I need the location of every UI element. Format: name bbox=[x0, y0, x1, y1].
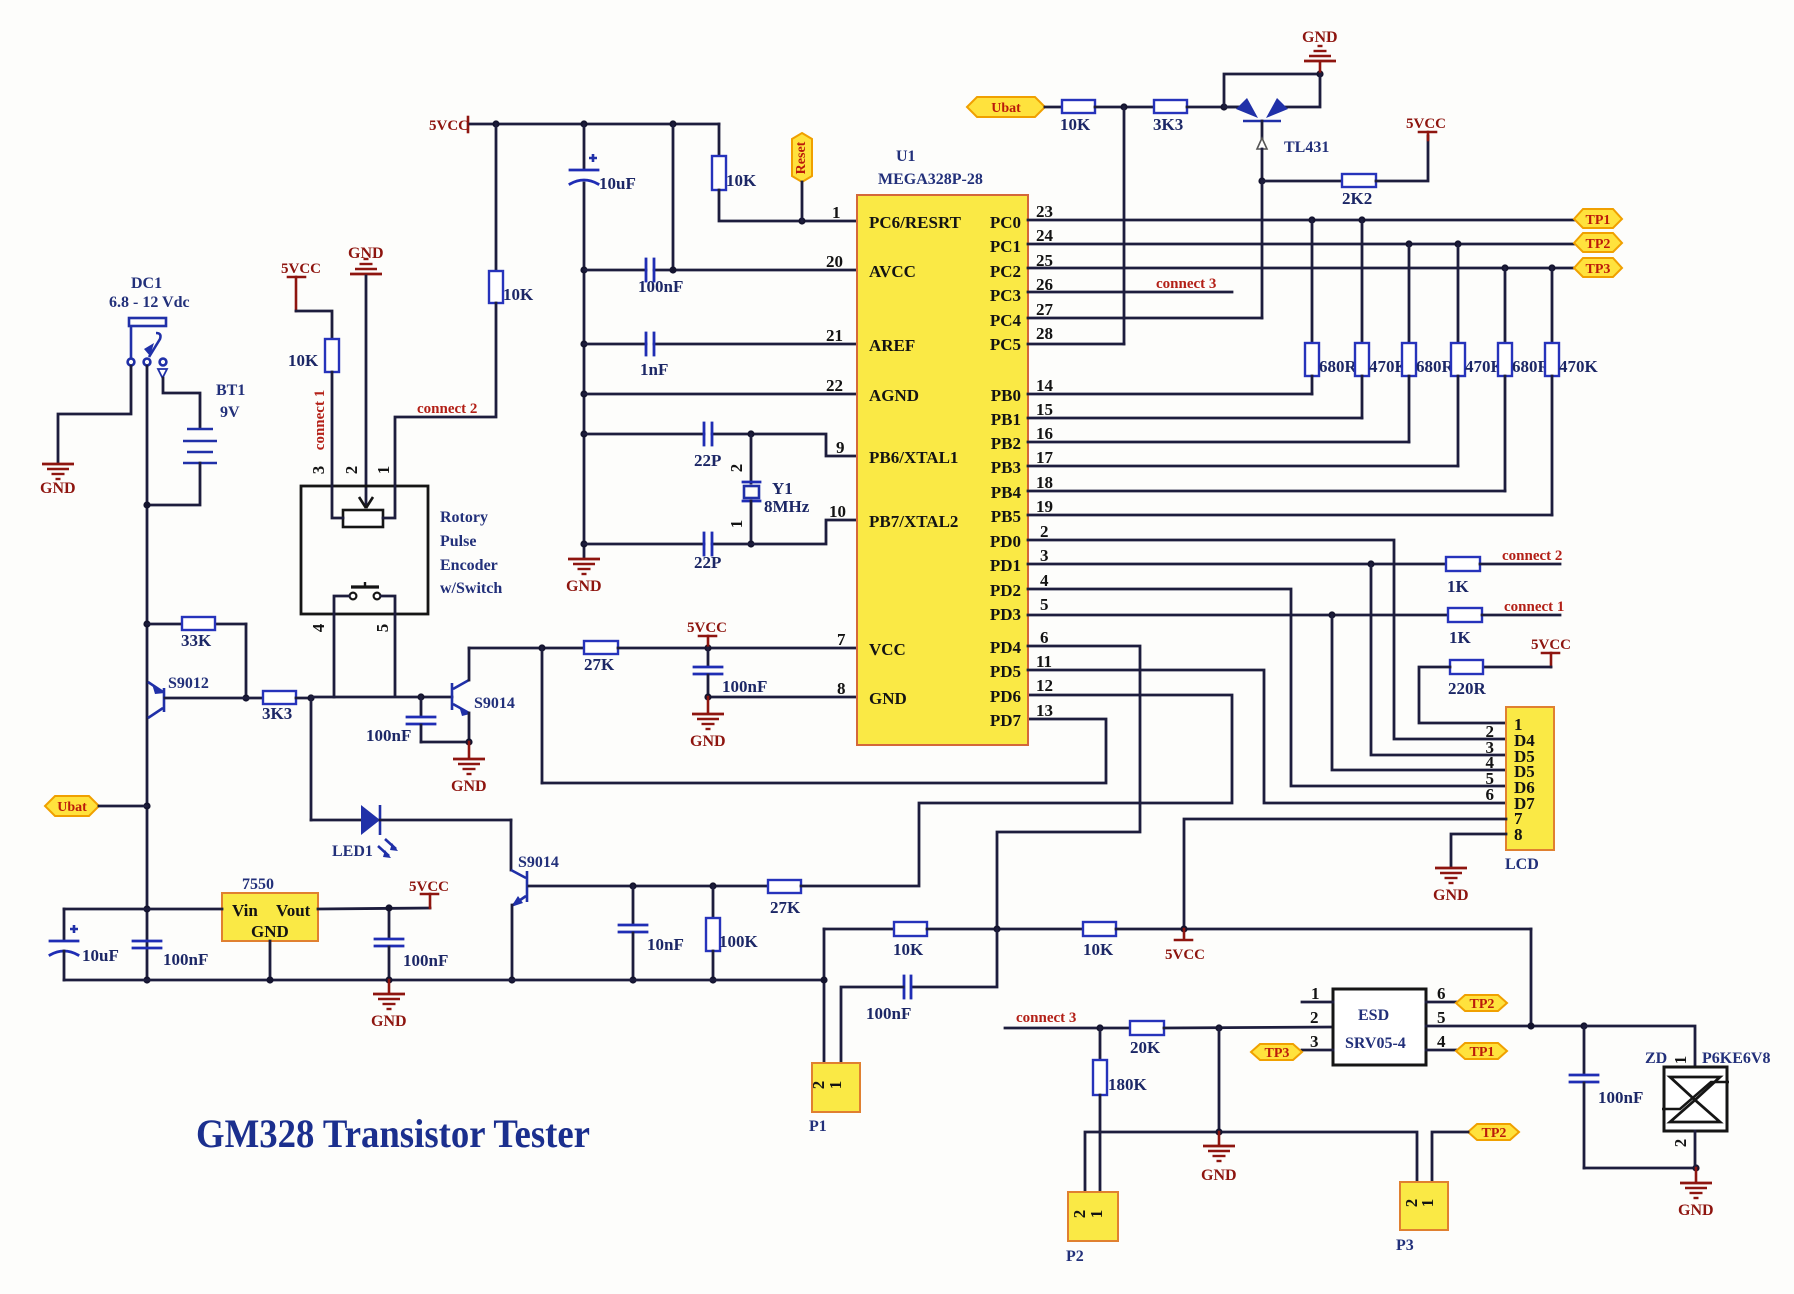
svg-text:S9014: S9014 bbox=[518, 854, 559, 871]
wire 10K2 to 5VCC junction and ESD corner bbox=[1116, 929, 1531, 1026]
svg-text:5: 5 bbox=[1437, 1008, 1446, 1027]
svg-text:GND: GND bbox=[690, 733, 726, 750]
ESD pin1 stub bbox=[1302, 984, 1333, 1003]
svg-text:TL431: TL431 bbox=[1284, 139, 1329, 156]
svg-text:Vin: Vin bbox=[232, 901, 258, 920]
ground TL431 (inverted) bbox=[1302, 29, 1338, 74]
svg-text:PC6/RESRT: PC6/RESRT bbox=[869, 213, 962, 232]
resistor 100K (vertical) bbox=[706, 886, 759, 980]
node p1-rail bbox=[820, 976, 827, 983]
wire PD5 row to LCD D7 bbox=[1028, 670, 1506, 803]
node pc2-680R bbox=[1501, 264, 1508, 271]
svg-text:PC0: PC0 bbox=[990, 213, 1021, 232]
node 180K-top bbox=[1096, 1024, 1103, 1031]
capacitor 100nF (output) bbox=[375, 908, 448, 980]
resistor 470K (TP2) bbox=[1451, 244, 1505, 466]
wire PD0 row to LCD D4 bbox=[1028, 540, 1506, 739]
power flag 5VCC (VCC pin) bbox=[687, 620, 727, 648]
svg-text:connect 1: connect 1 bbox=[1504, 599, 1564, 615]
node 7550-rail bbox=[266, 976, 273, 983]
node vout-cap bbox=[385, 904, 392, 911]
U1 right pin numbers bbox=[1036, 202, 1054, 720]
svg-text:20K: 20K bbox=[1130, 1038, 1161, 1057]
node avcc-584 bbox=[580, 266, 587, 273]
svg-text:TP2: TP2 bbox=[1470, 997, 1495, 1012]
svg-text:P1: P1 bbox=[809, 1118, 827, 1135]
svg-text:3: 3 bbox=[1310, 1032, 1319, 1051]
wire connect 2 to encoder pin1 bbox=[395, 303, 496, 486]
svg-text:PD3: PD3 bbox=[990, 605, 1021, 624]
svg-text:2: 2 bbox=[1310, 1008, 1319, 1027]
net label connect 3 (bottom) bbox=[1005, 1010, 1130, 1028]
wire node down to LED row bbox=[310, 698, 313, 820]
svg-text:180K: 180K bbox=[1108, 1075, 1148, 1094]
svg-text:GND: GND bbox=[1678, 1202, 1714, 1219]
ground encoder pin2 (inverted) bbox=[348, 245, 384, 504]
node TL431-cathode-loop bbox=[1220, 103, 1227, 110]
node 100K-rail bbox=[709, 976, 716, 983]
wire collector column x542 bbox=[541, 648, 544, 783]
svg-text:1: 1 bbox=[1311, 984, 1320, 1003]
node 100K-base bbox=[709, 882, 716, 889]
svg-text:Encoder: Encoder bbox=[440, 557, 498, 574]
capacitor 100nF (input) bbox=[133, 941, 208, 969]
U1 right pin labels bbox=[990, 213, 1022, 730]
net tag TP2 (ESD) bbox=[1456, 995, 1507, 1012]
resistor 33K bbox=[181, 617, 215, 650]
connector DC1 jack symbol bbox=[128, 318, 167, 378]
svg-text:Reset: Reset bbox=[794, 141, 809, 174]
svg-text:6: 6 bbox=[1040, 628, 1049, 647]
ground main rail bbox=[371, 980, 407, 1030]
node pc0-680R bbox=[1308, 216, 1315, 223]
node vin-rail junction bbox=[143, 905, 150, 912]
transistor-ref TL431 bbox=[1224, 74, 1329, 181]
svg-text:2: 2 bbox=[342, 466, 361, 475]
U1 left pin numbers bbox=[826, 203, 846, 698]
svg-text:100nF: 100nF bbox=[866, 1004, 911, 1023]
node divider-PC5 bbox=[1120, 103, 1127, 110]
svg-text:100nF: 100nF bbox=[366, 726, 411, 745]
node vcc-100nF bbox=[704, 644, 711, 651]
wire bottom gnd row bbox=[1085, 1132, 1417, 1192]
battery BT1 labels bbox=[216, 382, 245, 421]
encoder pin numbers 3 2 1 bbox=[309, 466, 393, 475]
resistor 680R (TP2) bbox=[1402, 244, 1455, 442]
node gnd-TL431 bbox=[1316, 70, 1323, 77]
wire Vout rail bbox=[318, 908, 430, 909]
wire 2K2 to 5VCC bbox=[1376, 136, 1428, 181]
wire vertical rail to AVCC cap bbox=[672, 124, 675, 270]
svg-text:PC4: PC4 bbox=[990, 311, 1022, 330]
node rail-496 bbox=[492, 120, 499, 127]
ESD pin6 wire bbox=[1426, 984, 1456, 1003]
wire encoder pin4 down bbox=[333, 614, 336, 697]
svg-text:1: 1 bbox=[1087, 1210, 1106, 1219]
svg-text:14: 14 bbox=[1036, 376, 1054, 395]
resistor 10K (Ubat divider top) bbox=[1060, 100, 1095, 134]
node reset bbox=[798, 217, 805, 224]
diode-array ESD SRV05-4 bbox=[1333, 989, 1426, 1065]
ground DC jack bbox=[40, 464, 76, 497]
wire bottom gnd rail bbox=[64, 979, 824, 982]
transistor Q1 S9012 bbox=[148, 675, 246, 718]
LCD pin numbers bbox=[1486, 722, 1495, 804]
svg-text:5VCC: 5VCC bbox=[687, 620, 727, 636]
svg-text:2: 2 bbox=[1040, 522, 1049, 541]
resistor 10K (encoder pin3 pullup) bbox=[288, 339, 339, 372]
svg-text:1: 1 bbox=[374, 466, 393, 475]
resistor 27K (VCC feed) bbox=[584, 641, 618, 674]
wire XTAL2 row bbox=[584, 520, 857, 544]
resistor 1K (connect 1) bbox=[1448, 608, 1482, 647]
wire TL431 top loop bbox=[1224, 74, 1320, 107]
svg-text:PB6/XTAL1: PB6/XTAL1 bbox=[869, 448, 958, 467]
capacitor 1nF (AREF) bbox=[640, 333, 668, 379]
wire emitter to gnd node bbox=[421, 713, 469, 742]
node outcap-rail bbox=[385, 976, 392, 983]
capacitor 22P (XTAL2) bbox=[694, 533, 721, 572]
svg-text:100nF: 100nF bbox=[403, 951, 448, 970]
svg-text:MEGA328P-28: MEGA328P-28 bbox=[878, 171, 983, 188]
svg-text:5: 5 bbox=[373, 624, 392, 633]
svg-text:24: 24 bbox=[1036, 226, 1054, 245]
svg-text:PD5: PD5 bbox=[990, 662, 1021, 681]
svg-text:2K2: 2K2 bbox=[1342, 189, 1372, 208]
svg-text:11: 11 bbox=[1036, 652, 1052, 671]
wire ref to PC4 bbox=[1028, 181, 1262, 318]
svg-text:P3: P3 bbox=[1396, 1237, 1414, 1254]
node xtal1-584 bbox=[580, 430, 587, 437]
net tag Reset bbox=[792, 133, 812, 221]
svg-text:1: 1 bbox=[727, 520, 746, 529]
wire PB5 row bbox=[1028, 514, 1552, 517]
svg-text:100K: 100K bbox=[719, 932, 759, 951]
svg-text:5VCC: 5VCC bbox=[1406, 116, 1446, 132]
wire LED cathode to S9014 no2 collector bbox=[380, 820, 511, 870]
power flag 5VCC main bbox=[429, 117, 469, 134]
svg-text:AVCC: AVCC bbox=[869, 262, 916, 281]
svg-text:5VCC: 5VCC bbox=[409, 879, 449, 895]
svg-text:22P: 22P bbox=[694, 451, 721, 470]
wire 10K to junction bbox=[927, 928, 1083, 931]
wire rail to R 10K pullup encoder-1 bbox=[495, 124, 498, 271]
svg-text:PB4: PB4 bbox=[991, 483, 1022, 502]
svg-text:TP2: TP2 bbox=[1482, 1126, 1507, 1141]
wire 10K to encoder pin 3 bbox=[331, 372, 334, 486]
svg-text:6: 6 bbox=[1437, 984, 1446, 1003]
svg-text:DC1: DC1 bbox=[131, 275, 162, 292]
power flag 5VCC (bottom) bbox=[1165, 929, 1205, 963]
svg-text:w/Switch: w/Switch bbox=[440, 580, 502, 597]
ESD pin5 wire bbox=[1426, 1008, 1584, 1027]
wire PC3 row (connect 3) bbox=[1028, 291, 1232, 294]
svg-text:18: 18 bbox=[1036, 473, 1053, 492]
node collector / PD7 column bbox=[538, 644, 545, 651]
svg-text:17: 17 bbox=[1036, 448, 1054, 467]
svg-text:S9014: S9014 bbox=[474, 695, 515, 712]
svg-text:PB0: PB0 bbox=[991, 386, 1021, 405]
svg-text:GND: GND bbox=[869, 689, 907, 708]
svg-text:GND: GND bbox=[1433, 887, 1469, 904]
resistor 680R (TP3) bbox=[1498, 268, 1551, 491]
node 3K3-right bbox=[307, 694, 314, 701]
svg-text:ESD: ESD bbox=[1358, 1007, 1389, 1024]
connector P3 bbox=[1396, 1182, 1448, 1254]
wire pd3 down to LCD D5b bbox=[1332, 615, 1506, 770]
wire PD3 row bbox=[1028, 614, 1448, 617]
svg-text:Ubat: Ubat bbox=[57, 800, 87, 815]
net tag TP1 bbox=[1574, 209, 1622, 228]
capacitor 100nF (P1 bypass) bbox=[841, 929, 997, 1063]
capacitor 100nF (S9014 base) bbox=[366, 697, 435, 745]
wire main left vertical (Ubat column) bbox=[146, 366, 149, 980]
ground ZD bbox=[1678, 1168, 1714, 1219]
power flag 5VCC (2K2) bbox=[1406, 116, 1446, 140]
resistor 470K (TP1) bbox=[1355, 220, 1409, 418]
capacitor 100nF (AVCC) bbox=[638, 259, 683, 296]
wire PB2 row bbox=[1028, 441, 1409, 444]
resistor 27K (base) bbox=[768, 880, 801, 917]
svg-text:PC2: PC2 bbox=[990, 262, 1021, 281]
svg-text:20: 20 bbox=[826, 252, 843, 271]
wire encoder pin5 down bbox=[394, 614, 397, 696]
svg-text:10K: 10K bbox=[893, 940, 924, 959]
connector P2 bbox=[1066, 1192, 1118, 1265]
node rail-584 bbox=[580, 120, 587, 127]
node 33K junction bbox=[143, 620, 150, 627]
svg-text:P6KE6V8: P6KE6V8 bbox=[1702, 1050, 1770, 1067]
svg-text:4: 4 bbox=[1437, 1032, 1446, 1051]
wire PD2 row to LCD D6 bbox=[1028, 589, 1506, 786]
crystal Y1 8MHz bbox=[727, 464, 810, 529]
svg-text:PD6: PD6 bbox=[990, 687, 1021, 706]
wire AREF row bbox=[584, 343, 857, 346]
capacitor 10uF (top left, polarized) bbox=[570, 124, 636, 557]
node y1-top bbox=[747, 430, 754, 437]
connector P1 bbox=[809, 1063, 860, 1135]
wire crystal top lead bbox=[750, 434, 753, 483]
ground bottom middle bbox=[1201, 1132, 1237, 1184]
svg-text:GM328 Transistor Tester: GM328 Transistor Tester bbox=[196, 1111, 590, 1156]
ground below 10uF column bbox=[566, 559, 602, 595]
node xtal2-584 bbox=[580, 540, 587, 547]
capacitor 10nF bbox=[619, 886, 684, 980]
wire base row to S9014 no1 bbox=[311, 696, 452, 699]
U1 left pin labels bbox=[869, 213, 962, 708]
svg-text:GND: GND bbox=[566, 578, 602, 595]
node Ubat junction bbox=[143, 802, 150, 809]
wire PD1 row bbox=[1028, 563, 1446, 566]
svg-text:connect 2: connect 2 bbox=[417, 401, 477, 417]
svg-text:10nF: 10nF bbox=[647, 935, 684, 954]
svg-text:10uF: 10uF bbox=[599, 174, 636, 193]
svg-text:Pulse: Pulse bbox=[440, 533, 476, 550]
svg-text:8: 8 bbox=[1514, 825, 1523, 844]
svg-text:GND: GND bbox=[40, 480, 76, 497]
node TL431-ref bbox=[1258, 177, 1265, 184]
resistor 10K (reset pullup) bbox=[712, 156, 757, 190]
svg-text:10K: 10K bbox=[288, 351, 319, 370]
svg-text:220R: 220R bbox=[1448, 679, 1487, 698]
node gnd-pin bbox=[704, 693, 711, 700]
wire 20K to ESD pin2 bbox=[1164, 1027, 1333, 1028]
resistor 470K (TP3) bbox=[1545, 268, 1599, 515]
svg-text:27: 27 bbox=[1036, 300, 1054, 319]
wire PC2 row to TP3 bbox=[1028, 267, 1574, 270]
diode ZD P6KE6V8 bbox=[1645, 1050, 1770, 1147]
node emitter gnd bbox=[465, 738, 472, 745]
svg-text:7550: 7550 bbox=[242, 876, 274, 893]
rotary encoder box bbox=[301, 486, 502, 614]
svg-text:100nF: 100nF bbox=[1598, 1088, 1643, 1107]
svg-text:PD0: PD0 bbox=[990, 532, 1021, 551]
transistor Q2 S9014 (top) bbox=[452, 680, 515, 716]
node pc0-470K bbox=[1358, 216, 1365, 223]
wire PC0 row to TP1 bbox=[1028, 219, 1574, 222]
net tag Ubat (left) bbox=[45, 796, 147, 816]
wire PB3 row bbox=[1028, 465, 1458, 468]
svg-text:SRV05-4: SRV05-4 bbox=[1345, 1035, 1406, 1052]
op-amp U1 MEGA328P-28 block bbox=[857, 195, 1028, 745]
net label connect 2 (right) bbox=[1480, 548, 1562, 564]
svg-text:BT1: BT1 bbox=[216, 382, 245, 399]
resistor 3K3 (Ubat divider bottom) bbox=[1153, 100, 1187, 134]
svg-text:PD2: PD2 bbox=[990, 581, 1021, 600]
node avcc-673 bbox=[669, 266, 676, 273]
svg-text:connect 1: connect 1 bbox=[312, 390, 328, 450]
svg-text:680R: 680R bbox=[1319, 357, 1358, 376]
svg-text:3: 3 bbox=[1040, 546, 1049, 565]
svg-text:5VCC: 5VCC bbox=[429, 118, 469, 134]
svg-text:S9012: S9012 bbox=[168, 675, 209, 692]
wire cap bottom to gnd node bbox=[1584, 1167, 1696, 1170]
resistor 20K bbox=[1130, 1021, 1164, 1057]
svg-text:TP3: TP3 bbox=[1265, 1046, 1290, 1061]
wire 5VCC top rail bbox=[470, 123, 719, 126]
node base S9012 bbox=[242, 694, 249, 701]
wire 5VCC to 10K encoder bbox=[296, 311, 332, 339]
node battery junction bbox=[143, 501, 150, 508]
node rail-673 bbox=[669, 120, 676, 127]
node aref-584 bbox=[580, 340, 587, 347]
node emitter-rail bbox=[508, 976, 515, 983]
svg-text:6: 6 bbox=[1486, 785, 1495, 804]
wire gnd column bbox=[1218, 1028, 1221, 1132]
resistor 220R bbox=[1448, 660, 1551, 698]
node agnd-584 bbox=[580, 390, 587, 397]
wire PD4 loop to 10K junction bbox=[997, 646, 1140, 929]
svg-text:TP2: TP2 bbox=[1586, 237, 1611, 252]
resistor 180K (vertical) bbox=[1093, 1028, 1148, 1192]
svg-text:PD1: PD1 bbox=[990, 556, 1021, 575]
svg-text:PD7: PD7 bbox=[990, 711, 1022, 730]
svg-text:5: 5 bbox=[1040, 595, 1049, 614]
svg-text:100nF: 100nF bbox=[638, 277, 683, 296]
svg-text:6.8 - 12 Vdc: 6.8 - 12 Vdc bbox=[109, 294, 190, 311]
svg-text:4: 4 bbox=[1040, 571, 1049, 590]
svg-text:19: 19 bbox=[1036, 497, 1053, 516]
svg-text:1: 1 bbox=[1418, 1199, 1437, 1208]
svg-text:PC3: PC3 bbox=[990, 286, 1021, 305]
svg-text:16: 16 bbox=[1036, 424, 1053, 443]
ESD pin4 wire bbox=[1426, 1032, 1456, 1051]
capacitor 100nF (TP column) bbox=[1570, 1026, 1643, 1168]
wire PB4 row bbox=[1028, 490, 1505, 493]
svg-text:680R: 680R bbox=[1416, 357, 1455, 376]
svg-text:GND: GND bbox=[1201, 1167, 1237, 1184]
ground U1 GND pin bbox=[690, 697, 726, 750]
svg-text:23: 23 bbox=[1036, 202, 1053, 221]
net tag TP1 (ESD) bbox=[1456, 1043, 1507, 1060]
wire AVCC row bbox=[584, 269, 857, 272]
node y1-bottom bbox=[747, 540, 754, 547]
wire PC1 row to TP2 bbox=[1028, 243, 1574, 246]
node 100nF base junction bbox=[417, 693, 424, 700]
svg-text:GND: GND bbox=[451, 778, 487, 795]
resistor 3K3 bbox=[262, 691, 296, 723]
node esd5-rail bbox=[1527, 1022, 1534, 1029]
svg-text:U1: U1 bbox=[896, 148, 916, 165]
wire LED row bbox=[311, 819, 361, 822]
wire Ubat to 10K bbox=[1045, 106, 1062, 109]
wire 33K row bbox=[147, 624, 246, 698]
svg-text:3K3: 3K3 bbox=[1153, 115, 1183, 134]
wire 3K3 to node bbox=[296, 697, 311, 700]
net tag TP2 (bottom) bbox=[1468, 1124, 1519, 1141]
wire PD7 loop bbox=[542, 719, 1106, 783]
svg-text:9: 9 bbox=[836, 438, 845, 457]
capacitor 22P (XTAL1) bbox=[694, 423, 721, 470]
regulator 7550 block bbox=[222, 893, 318, 941]
svg-text:PB5: PB5 bbox=[991, 507, 1021, 526]
svg-text:connect 3: connect 3 bbox=[1016, 1010, 1076, 1026]
wire S9012 base to 3K3 bbox=[246, 697, 263, 700]
resistor 10K (second series) bbox=[1083, 922, 1116, 959]
svg-text:10uF: 10uF bbox=[82, 946, 119, 965]
node 10nF-base bbox=[629, 882, 636, 889]
encoder pin numbers 4 5 bbox=[309, 623, 392, 632]
svg-text:Vout: Vout bbox=[276, 901, 311, 920]
wire 10K to 3K3 bbox=[1095, 106, 1154, 109]
svg-text:AGND: AGND bbox=[869, 386, 919, 405]
net tag Ubat (top) bbox=[967, 97, 1045, 117]
svg-text:3K3: 3K3 bbox=[262, 704, 292, 723]
ground LCD bbox=[1433, 868, 1469, 904]
power flag 5VCC (Vout) bbox=[409, 879, 449, 908]
svg-text:22P: 22P bbox=[694, 553, 721, 572]
svg-text:5VCC: 5VCC bbox=[1165, 947, 1205, 963]
svg-text:LCD: LCD bbox=[1505, 856, 1539, 873]
wire 220R to LCD pin1 bbox=[1419, 667, 1506, 723]
wire rail corner into 10K reset pullup bbox=[718, 124, 721, 156]
LCD pin labels bbox=[1514, 715, 1535, 844]
ground S9014 no1 bbox=[451, 742, 487, 795]
wire emitter down to gnd rail bbox=[511, 905, 514, 980]
switch inside encoder bbox=[334, 582, 395, 614]
svg-text:470K: 470K bbox=[1559, 357, 1599, 376]
diode LED1 bbox=[332, 805, 398, 860]
wire base row right bbox=[529, 885, 768, 888]
svg-text:100nF: 100nF bbox=[163, 950, 208, 969]
svg-text:1: 1 bbox=[826, 1081, 845, 1090]
wire XTAL1 row bbox=[584, 434, 857, 456]
node gnd-rail junction bbox=[143, 976, 150, 983]
svg-text:5VCC: 5VCC bbox=[281, 261, 321, 277]
svg-text:10K: 10K bbox=[1083, 940, 1114, 959]
transistor Q3 S9014 (bottom) bbox=[511, 854, 559, 907]
svg-text:2: 2 bbox=[1671, 1139, 1690, 1148]
